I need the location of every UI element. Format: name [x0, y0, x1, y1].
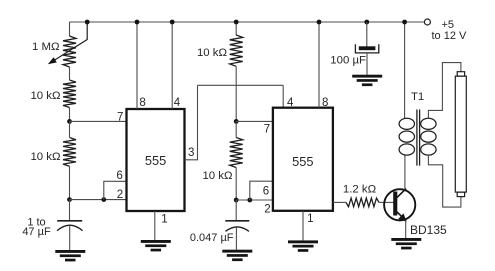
wire step to pin 6 U2 [250, 181, 273, 200]
label C3 100 uF [330, 55, 366, 67]
svg-text:555: 555 [292, 154, 313, 169]
wire rail to C3 [366, 22, 368, 47]
wire R6 to base Q1 [379, 201, 393, 203]
svg-text:8: 8 [139, 97, 145, 109]
junction pin2/pin6 U2 [247, 198, 252, 203]
svg-text:1.2 kΩ: 1.2 kΩ [343, 183, 377, 195]
ground U2 [288, 240, 318, 251]
ground C1 [55, 250, 85, 261]
pin 2 label U1 [117, 189, 123, 201]
svg-text:10 kΩ: 10 kΩ [197, 47, 228, 59]
resistor R4 10 k&#937; [230, 35, 243, 66]
pin 1 label U2 [307, 213, 313, 225]
svg-text:4: 4 [287, 97, 294, 109]
wire T1 secondary bottom to lamp [428, 155, 461, 207]
capacitor C3 100 uF electrolytic [355, 44, 378, 53]
transformer T1 primary winding [399, 118, 414, 155]
pin 8 label U1 [139, 97, 145, 109]
transformer T1 secondary winding [421, 118, 436, 155]
svg-text:4: 4 [174, 97, 181, 109]
pin 6 label U1 [116, 170, 122, 182]
pin 4 label U1 [174, 97, 181, 109]
svg-text:7: 7 [264, 124, 270, 136]
pin 3 label U1 [188, 147, 194, 159]
pin 4 label U2 [287, 97, 294, 109]
wire C1 to ground [69, 226, 71, 250]
transformer T1 core [417, 110, 420, 166]
label C1 value [22, 216, 51, 237]
wire pot top lead [69, 22, 71, 36]
label C2 value [190, 232, 234, 244]
lamp fluorescent tube [455, 72, 466, 197]
svg-text:6: 6 [116, 170, 122, 182]
wire R3 to node B [69, 166, 71, 199]
wire pin 8 U2 [318, 22, 320, 108]
junction C3 rail [364, 20, 369, 25]
wire R3 top lead [69, 121, 71, 137]
node B junction [67, 197, 72, 202]
capacitor C1 1 to 47 uF [57, 221, 83, 231]
wire node B to C1 [69, 200, 71, 221]
label R6 1.2 k&#937; [343, 183, 377, 195]
label U1 555 [145, 153, 166, 168]
wire emitter Q1 to ground [405, 221, 407, 239]
wire +V to T1 primary [404, 22, 406, 119]
wire pin 3 U1 output [185, 85, 198, 160]
node C junction [234, 119, 239, 124]
label R4 10 k&#937; [197, 47, 228, 59]
node +V terminal stub [405, 21, 425, 23]
wire pin 4 U1 [171, 22, 173, 109]
svg-text:3: 3 [188, 147, 194, 159]
node A junction [67, 119, 72, 124]
wire T1 secondary top to lamp [428, 63, 461, 119]
wire pin 8 U1 [136, 22, 138, 109]
label R3 10 k&#937; [30, 151, 61, 163]
svg-text:2: 2 [117, 189, 123, 201]
svg-text:1: 1 [307, 213, 313, 225]
label 1 M&#937; [32, 41, 60, 53]
svg-text:8: 8 [322, 97, 328, 109]
node D junction [234, 198, 239, 203]
wire node A to pin 7 U1 [70, 120, 127, 122]
wire pin 1 U1 to ground [154, 211, 156, 240]
svg-text:T1: T1 [411, 91, 424, 103]
label R2 10 k&#937; [30, 90, 61, 102]
svg-text:2: 2 [264, 203, 270, 215]
junction pin 4 U1 rail [170, 20, 175, 25]
svg-text:10 kΩ: 10 kΩ [202, 170, 233, 182]
wire pot to R2 [69, 67, 71, 80]
wire U1 out to U2 reset [198, 84, 284, 86]
wire node B to pin 2 U1 [70, 199, 127, 201]
wire pin 1 U2 to ground [302, 211, 304, 241]
wire R5 top lead [235, 121, 237, 137]
pin 8 label U2 [322, 97, 328, 109]
label +5 to 12 V [432, 19, 468, 42]
svg-text:1 MΩ: 1 MΩ [32, 41, 60, 53]
label U2 555 [292, 154, 313, 169]
wire R5 to node D [235, 168, 237, 201]
potentiometer R1 1 M&#937; body [63, 36, 76, 67]
wire pin 3 U2 to R6 [333, 201, 346, 203]
transistor Q1 BD135 [384, 189, 415, 222]
wire R2 to node A [69, 108, 71, 122]
wire node D to pin 2 U2 [236, 199, 273, 201]
wire collector Q1 to T1 [404, 156, 406, 190]
junction pin2/pin6 U1 [101, 197, 106, 202]
pin 1 label U1 [161, 213, 167, 225]
svg-text:to 12 V: to 12 V [432, 30, 468, 42]
junction pin 8 U2 rail [317, 20, 322, 25]
ground C3 [352, 75, 382, 86]
wire +V supply rail [70, 21, 405, 23]
potentiometer R1 wiper arrow [48, 22, 87, 64]
junction wiper to rail [85, 20, 90, 25]
pin 7 label U2 [264, 124, 270, 136]
junction +V corner [402, 20, 407, 25]
svg-text:100 µF: 100 µF [330, 55, 366, 67]
svg-text:0.047 µF: 0.047 µF [190, 232, 234, 244]
ground C2 [222, 250, 252, 261]
resistor R5 10 k&#937; [230, 138, 243, 168]
label Q1 BD135 [410, 223, 447, 237]
junction pin 8 U1 rail [135, 20, 140, 25]
svg-text:10 kΩ: 10 kΩ [30, 90, 61, 102]
pin 6 label U2 [263, 185, 269, 197]
svg-text:6: 6 [263, 185, 269, 197]
op-amp U1 555 body [127, 109, 185, 211]
label T1 [411, 91, 424, 103]
wire R4 top lead [235, 22, 237, 35]
wire R4 to node C [235, 66, 237, 121]
wire step to pin 6 U1 [104, 181, 127, 199]
svg-text:555: 555 [145, 153, 166, 168]
node +V terminal circle [424, 19, 430, 25]
svg-text:1: 1 [161, 213, 167, 225]
svg-text:7: 7 [117, 111, 123, 123]
resistor R6 1.2 k&#937; [346, 198, 379, 207]
label R5 10 k&#937; [202, 170, 233, 182]
wire C3 to ground [366, 53, 368, 75]
ground U1 [141, 240, 171, 251]
op-amp U2 555 body [273, 108, 333, 211]
resistor R2 10 k&#937; [63, 80, 76, 108]
svg-text:47 µF: 47 µF [22, 226, 51, 238]
wire node D to C2 [235, 200, 237, 220]
resistor R3 10 k&#937; [63, 138, 76, 167]
pin 2 label U2 [264, 203, 270, 215]
wire C2 to ground [235, 226, 237, 250]
wire node C to pin 7 U2 [236, 120, 273, 122]
capacitor C2 0.047 uF [225, 221, 249, 232]
pin 7 label U1 [117, 111, 123, 123]
junction R4 rail [234, 20, 239, 25]
wire down to pin 4 U2 [282, 85, 284, 107]
svg-text:10 kΩ: 10 kΩ [30, 151, 61, 163]
ground Q1 [391, 238, 421, 249]
svg-text:BD135: BD135 [410, 223, 447, 237]
